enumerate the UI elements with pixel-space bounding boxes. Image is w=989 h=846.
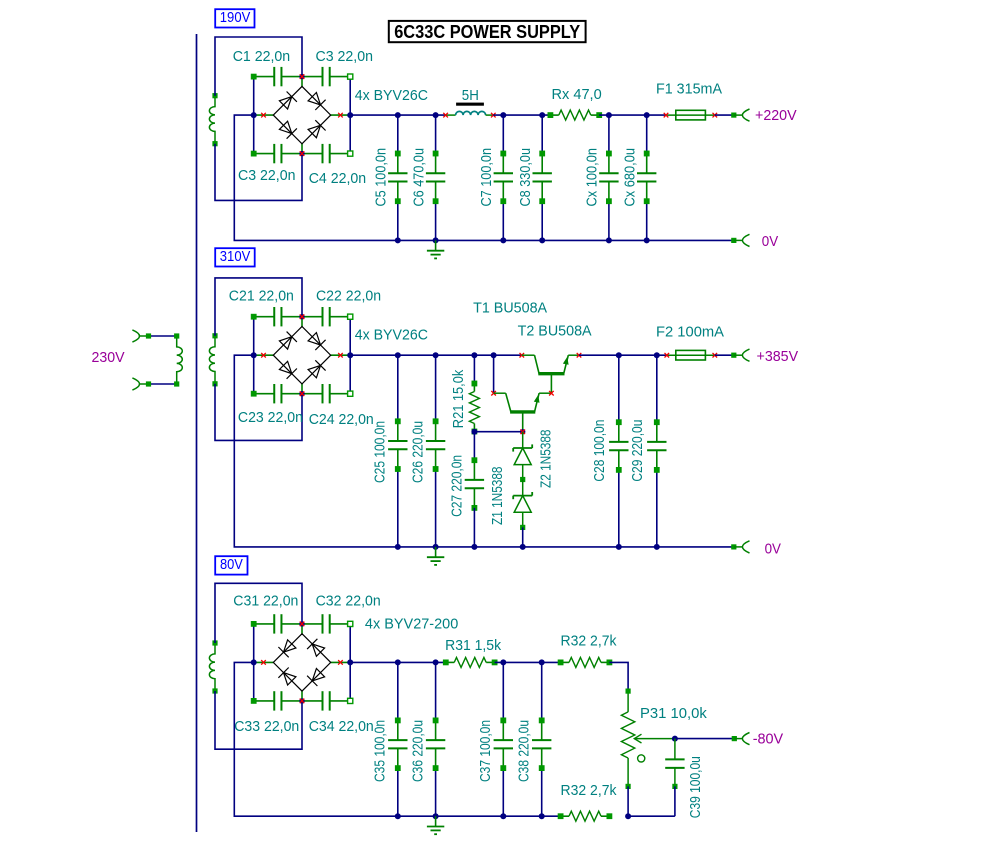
svg-text:R32 2,7k: R32 2,7k: [561, 782, 617, 799]
label C32 22,0n: [316, 593, 381, 610]
wire wiper to -80V: [672, 736, 743, 742]
label Z1 1N5388: [489, 467, 506, 526]
svg-text:C25 100,0n: C25 100,0n: [372, 421, 389, 483]
svg-text:C5 100,0n: C5 100,0n: [373, 148, 390, 207]
svg-text:C21 22,0n: C21 22,0n: [229, 288, 294, 305]
label F2 100mA: [656, 324, 724, 341]
svg-text:C32 22,0n: C32 22,0n: [316, 593, 381, 610]
svg-text:310V: 310V: [220, 248, 251, 265]
capacitor C25 100,0n: [388, 419, 407, 472]
label C7 100,0n: [478, 148, 495, 207]
transformer core: [196, 34, 198, 832]
svg-text:P31 10,0k: P31 10,0k: [640, 705, 707, 722]
wire sec2 DC- to 0V rail: [234, 355, 734, 547]
resistor R32 2,7k bottom: [558, 811, 612, 821]
bridge rectifier D31-D34 (4x BYV27-200): [251, 614, 354, 710]
capacitor C39 100,0u: [665, 739, 684, 817]
svg-text:C3 22,0n: C3 22,0n: [238, 167, 296, 184]
0V rail end sec2: [732, 545, 743, 550]
capacitor C36 220,0u: [426, 718, 445, 771]
label -80V: [753, 731, 784, 748]
wire R32 to P31: [609, 662, 628, 691]
label C31 22,0n: [233, 593, 298, 610]
wire bottom rail right sec3: [628, 815, 675, 817]
wire fuse to +220V: [715, 113, 743, 118]
svg-text:R32 2,7k: R32 2,7k: [561, 633, 617, 650]
wire sec1 AC top: [215, 37, 302, 96]
svg-text:C23 22,0n: C23 22,0n: [238, 409, 303, 426]
svg-text:Z1 1N5388: Z1 1N5388: [489, 467, 506, 526]
label 0V sec1: [762, 233, 778, 250]
label C8 330,0u: [517, 148, 534, 207]
wire branch C37: [500, 659, 506, 819]
svg-text:R31 1,5k: R31 1,5k: [445, 637, 501, 654]
svg-text:C36 220,0u: C36 220,0u: [409, 720, 426, 782]
svg-text:C7 100,0n: C7 100,0n: [478, 148, 495, 207]
connector J1 pin 2 (230V bottom): [132, 378, 148, 390]
capacitor C6 470,0u: [426, 151, 445, 204]
label F1 315mA: [656, 81, 722, 98]
wire branch Cx x646: [644, 112, 650, 243]
label Cx 680,0u: [622, 148, 639, 207]
label R32 2,7k: [561, 633, 617, 650]
label box 80V: [215, 556, 247, 575]
label 4x BYV26C sec2: [355, 327, 428, 344]
resistor Rx 47,0: [548, 110, 602, 120]
wire rail Rx to fuse: [599, 114, 666, 116]
svg-text:C38 220,0u: C38 220,0u: [515, 720, 532, 782]
wire output rail sec2: [579, 354, 667, 356]
label C3 22,0n bottom: [238, 167, 296, 184]
svg-text:C28 100,0n: C28 100,0n: [591, 420, 608, 482]
label +385V: [757, 348, 799, 365]
connector +385V: [742, 349, 749, 361]
bridge rectifier D21-D24 (4x BYV26C): [251, 307, 354, 403]
wire sec2 AC bottom: [215, 384, 302, 441]
svg-text:C1 22,0n: C1 22,0n: [233, 48, 291, 65]
wire R21 to base node: [471, 429, 525, 435]
label Rx 47,0: [552, 86, 602, 103]
svg-text:Rx 47,0: Rx 47,0: [552, 86, 602, 103]
label +220V: [755, 107, 797, 124]
wire branch C38: [539, 659, 545, 819]
capacitor C27 220,0n: [465, 432, 484, 547]
svg-text:F1 315mA: F1 315mA: [656, 81, 722, 98]
wire branch C35: [395, 659, 401, 819]
wire sec1 AC bottom: [215, 144, 302, 201]
label C23 22,0n: [238, 409, 303, 426]
label 4x BYV27-200: [365, 616, 458, 633]
wire sec3 DC+ to 0V rail: [234, 662, 560, 816]
wire branch C6 x435: [433, 112, 439, 243]
label C37 100,0n: [477, 720, 494, 782]
label 230V: [92, 349, 125, 366]
svg-text:80V: 80V: [220, 556, 243, 573]
svg-text:6C33C POWER SUPPLY: 6C33C POWER SUPPLY: [394, 22, 580, 42]
wire sec3 AC top: [215, 583, 302, 643]
connector J1 pin 1 (230V top): [132, 330, 148, 342]
wire sec3 main rail: [350, 661, 446, 663]
wire branch C8 x542: [539, 112, 545, 243]
wire rail R31-R32: [495, 661, 561, 663]
connector 0V sec1: [742, 234, 749, 246]
transformer secondary winding 80V: [209, 641, 217, 694]
transformer primary winding: [174, 334, 182, 387]
resistor R32 2,7k: [558, 657, 612, 667]
svg-text:C4 22,0n: C4 22,0n: [309, 170, 367, 187]
label box 310V: [215, 248, 255, 267]
svg-text:Cx 100,0n: Cx 100,0n: [584, 148, 601, 207]
transformer secondary winding 190V: [209, 93, 217, 146]
fuse F1 315mA: [664, 110, 717, 120]
svg-text:C3 22,0n: C3 22,0n: [316, 48, 374, 65]
svg-text:C22 22,0n: C22 22,0n: [316, 288, 381, 305]
svg-text:+385V: +385V: [757, 348, 799, 365]
label C36 220,0u: [409, 720, 426, 782]
svg-text:T2 BU508A: T2 BU508A: [518, 323, 592, 340]
label C29 220,0u: [629, 420, 646, 482]
label C34 22,0n: [309, 718, 374, 735]
svg-text:Cx 680,0u: Cx 680,0u: [622, 148, 639, 207]
svg-text:F2 100mA: F2 100mA: [656, 324, 724, 341]
svg-text:0V: 0V: [765, 540, 781, 557]
label Z2 1N5388: [537, 430, 554, 489]
svg-text:Z2 1N5388: Z2 1N5388: [537, 430, 554, 489]
wire primary top: [146, 334, 177, 339]
label C6 470,0u: [410, 148, 427, 207]
svg-text:C34 22,0n: C34 22,0n: [309, 718, 374, 735]
label C25 100,0n: [372, 421, 389, 483]
wire P31 bottom: [625, 786, 631, 819]
capacitor C8 330,0u: [533, 151, 552, 204]
capacitor C35 100,0n: [388, 718, 407, 771]
zener Z2 1N5388: [513, 432, 532, 482]
ground sec3: [427, 816, 444, 834]
label C21 22,0n: [229, 288, 294, 305]
svg-text:230V: 230V: [92, 349, 125, 366]
resistor R21 15,0k: [469, 352, 479, 434]
svg-text:C27 220,0n: C27 220,0n: [448, 455, 465, 517]
ground sec1: [427, 240, 444, 258]
connector 0V sec2: [742, 541, 749, 553]
label C28 100,0n: [591, 420, 608, 482]
label C39 100,0u: [687, 756, 704, 818]
label C26 220,0u: [409, 421, 426, 483]
label C33 22,0n: [234, 718, 299, 735]
transformer secondary winding 310V: [209, 334, 217, 387]
ground sec2: [427, 547, 444, 565]
capacitor C26 220,0u: [426, 419, 445, 472]
label C5 100,0n: [373, 148, 390, 207]
label R31 1,5k: [445, 637, 501, 654]
label C3 22,0n: [316, 48, 374, 65]
capacitor C5 100,0n: [388, 151, 407, 204]
label T2 BU508A: [518, 323, 592, 340]
capacitor C38 220,0u: [532, 718, 551, 771]
0V rail end sec1: [732, 238, 743, 243]
svg-text:C33 22,0n: C33 22,0n: [234, 718, 299, 735]
fuse F2 100mA: [665, 350, 718, 360]
0V rail dots sec2: [395, 544, 526, 550]
transistor T2 BU508A: [491, 352, 554, 432]
label C4 22,0n: [309, 170, 367, 187]
svg-text:C24 22,0n: C24 22,0n: [309, 411, 374, 428]
svg-text:C37 100,0n: C37 100,0n: [477, 720, 494, 782]
svg-text:C8 330,0u: C8 330,0u: [517, 148, 534, 207]
capacitor Cx 100,0n: [599, 151, 618, 204]
svg-text:C6 470,0u: C6 470,0u: [410, 148, 427, 207]
svg-text:-80V: -80V: [753, 731, 784, 748]
wire sec2 AC top: [215, 278, 302, 336]
wire rail L1 to C8: [493, 114, 550, 116]
capacitor C37 100,0n: [494, 718, 513, 771]
svg-text:4x BYV26C: 4x BYV26C: [355, 327, 428, 344]
label C24 22,0n: [309, 411, 374, 428]
label P31 10,0k: [640, 705, 707, 722]
label 5H: [462, 87, 479, 104]
wire branch C7 x503: [500, 112, 506, 243]
label R21 15,0k: [450, 369, 467, 428]
svg-text:R21 15,0k: R21 15,0k: [450, 369, 467, 428]
capacitor Cx 680,0u: [637, 151, 656, 204]
label Cx 100,0n: [584, 148, 601, 207]
inductor L1 5H: [443, 103, 495, 118]
svg-text:C29 220,0u: C29 220,0u: [629, 420, 646, 482]
resistor R31 1,5k: [443, 657, 497, 667]
label box 190V: [215, 9, 254, 27]
label T1 BU508A: [473, 299, 547, 316]
wire sec3 AC bottom: [215, 691, 302, 749]
label C1 22,0n: [233, 48, 291, 65]
bridge rectifier D1-D4 (4x BYV26C): [251, 67, 354, 163]
svg-text:C35 100,0n: C35 100,0n: [372, 720, 389, 782]
wire branch C36: [433, 659, 439, 819]
wire branch C28: [616, 352, 622, 550]
svg-text:4x BYV27-200: 4x BYV27-200: [365, 616, 458, 633]
label C35 100,0n: [372, 720, 389, 782]
svg-text:5H: 5H: [462, 87, 479, 104]
svg-text:4x BYV26C: 4x BYV26C: [355, 87, 428, 104]
wire branch C25: [395, 352, 401, 547]
title box 6C33C POWER SUPPLY: [389, 21, 586, 42]
label C22 22,0n: [316, 288, 381, 305]
wire sec1 DC- to 0V rail: [234, 115, 734, 240]
wire sec2 main rail: [350, 354, 521, 356]
label R32 2,7k bottom: [561, 782, 617, 799]
label 0V sec2: [765, 540, 781, 557]
capacitor C29 220,0u: [647, 420, 666, 473]
svg-text:T1 BU508A: T1 BU508A: [473, 299, 547, 316]
wire primary bottom: [146, 382, 177, 387]
svg-text:C26 220,0u: C26 220,0u: [409, 421, 426, 483]
wire branch C26: [433, 352, 439, 547]
svg-text:0V: 0V: [762, 233, 778, 250]
wire branch C29: [654, 352, 660, 550]
capacitor C28 100,0n: [609, 420, 628, 473]
connector -80V: [742, 733, 749, 745]
svg-text:190V: 190V: [220, 9, 251, 26]
svg-text:C31 22,0n: C31 22,0n: [233, 593, 298, 610]
svg-text:C39 100,0u: C39 100,0u: [687, 756, 704, 818]
wire fuse to +385V: [715, 353, 743, 358]
wire branch Cx x608: [606, 112, 612, 243]
wire sec1 main rail: [350, 114, 445, 116]
label C38 220,0u: [515, 720, 532, 782]
transistor T1 BU508A: [520, 353, 582, 393]
connector +220V: [742, 109, 749, 121]
zener Z1 1N5388: [513, 480, 532, 547]
potentiometer P31 10,0k: [621, 689, 675, 789]
label 4x BYV26C: [355, 87, 428, 104]
svg-text:+220V: +220V: [755, 107, 797, 124]
wire branch C5 x397: [395, 112, 401, 243]
label C27 220,0n: [448, 455, 465, 517]
capacitor C7 100,0n: [494, 151, 513, 204]
